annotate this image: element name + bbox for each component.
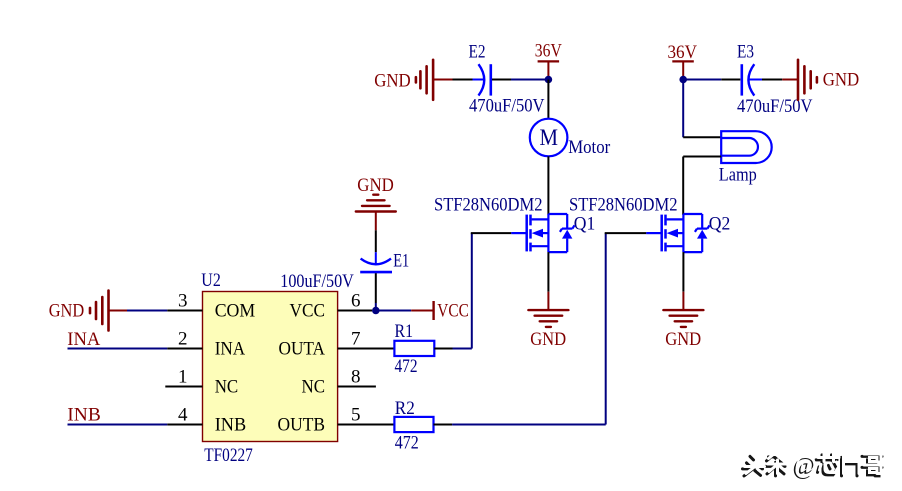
svg-text:INB: INB bbox=[215, 415, 247, 436]
node junction 36V/E3/lamp bbox=[679, 76, 687, 84]
power 36V stem (left) bbox=[547, 61, 549, 79]
wire E1 to VCC junction (navy segment) bbox=[375, 303, 377, 311]
ground earth symbol under Q1 bbox=[528, 310, 568, 327]
svg-text:GND: GND bbox=[665, 329, 701, 350]
wire COM net (navy segment) bbox=[127, 310, 167, 312]
capacitor E2 straight plate bbox=[489, 64, 492, 95]
svg-text:4: 4 bbox=[178, 405, 188, 426]
svg-text:STF28N60DM2: STF28N60DM2 bbox=[434, 195, 543, 216]
pin 8 NC stub bbox=[338, 386, 376, 388]
power VCC bar bbox=[432, 301, 434, 320]
wire R1 to corner (navy segment) bbox=[453, 348, 472, 350]
wire corner to Q2 gate (black horizontal) bbox=[605, 232, 647, 234]
resistor R2 body bbox=[394, 417, 433, 432]
svg-text:8: 8 bbox=[351, 367, 361, 388]
capacitor E2 curved plate bbox=[479, 64, 485, 95]
svg-text:NC: NC bbox=[302, 377, 326, 398]
power 36V bar (right) bbox=[672, 60, 694, 62]
svg-text:470uF/50V: 470uF/50V bbox=[469, 96, 545, 117]
node junction VCC/E1 bbox=[372, 307, 380, 315]
power 36V stem (right) bbox=[682, 61, 684, 79]
capacitor E3 lead right (blue) bbox=[749, 79, 762, 81]
power 36V bar (left) bbox=[538, 60, 560, 62]
wire COM net (maroon segment) bbox=[109, 310, 128, 312]
capacitor E1 curved plate bbox=[361, 259, 391, 265]
wire corner up to Q1 gate (navy vertical) bbox=[471, 233, 473, 348]
wire INA net (navy segment) bbox=[68, 348, 168, 350]
transistor Q2 symbol bbox=[646, 214, 709, 252]
wire E2 to 36V junction (black segment) bbox=[492, 79, 511, 81]
wire junction to VCC (maroon segment) bbox=[411, 310, 432, 312]
watermark 头条 @芯片哥 bbox=[743, 452, 885, 480]
svg-text:E2: E2 bbox=[469, 42, 486, 63]
svg-text:Motor: Motor bbox=[568, 137, 611, 158]
wire R2 to corner (navy segment) bbox=[452, 424, 606, 426]
svg-text:E1: E1 bbox=[393, 251, 409, 272]
ground symbol (rotated bars, E2 branch) bbox=[416, 60, 433, 100]
svg-text:STF28N60DM2: STF28N60DM2 bbox=[569, 195, 678, 216]
ground symbol (rotated bars, E3 branch) bbox=[798, 60, 817, 100]
svg-text:6: 6 bbox=[351, 291, 361, 312]
svg-text:OUTA: OUTA bbox=[279, 339, 326, 360]
svg-text:7: 7 bbox=[351, 329, 361, 350]
wire pin6 (black pin segment) bbox=[338, 310, 372, 312]
svg-text:VCC: VCC bbox=[437, 301, 469, 322]
svg-text:VCC: VCC bbox=[290, 301, 326, 322]
motor M1 circle bbox=[530, 119, 568, 157]
svg-text:GND: GND bbox=[357, 175, 394, 196]
svg-text:5: 5 bbox=[351, 405, 361, 426]
wire Q2 source to ground (maroon segment) bbox=[682, 292, 684, 310]
svg-text:472: 472 bbox=[395, 433, 419, 454]
svg-text:NC: NC bbox=[215, 377, 239, 398]
svg-text:M: M bbox=[539, 125, 558, 150]
svg-text:INA: INA bbox=[67, 329, 100, 350]
svg-text:472: 472 bbox=[395, 356, 418, 377]
svg-text:INB: INB bbox=[67, 405, 101, 426]
svg-text:R1: R1 bbox=[395, 321, 414, 342]
svg-text:GND: GND bbox=[49, 300, 84, 321]
wire ground to E1 (black segment) bbox=[375, 230, 377, 252]
wire pin5 to R2 (black) bbox=[338, 424, 395, 426]
wire Q1 source to ground (maroon segment) bbox=[547, 292, 549, 310]
svg-text:Q1: Q1 bbox=[574, 214, 596, 235]
wire corner to Q1 gate (black horizontal) bbox=[471, 232, 511, 234]
ground earth symbol inverted (E1 branch) bbox=[356, 195, 396, 212]
svg-text:2: 2 bbox=[178, 329, 188, 350]
wire junction down to lamp (navy) bbox=[682, 80, 684, 138]
capacitor E3 curved plate bbox=[748, 64, 754, 95]
wire E3 to ground (black segment) bbox=[762, 79, 782, 81]
resistor R1 body bbox=[394, 341, 434, 356]
svg-text:U2: U2 bbox=[201, 270, 221, 291]
wire junction to E3 (black segment) bbox=[721, 79, 740, 81]
IC U2 body bbox=[203, 292, 338, 442]
svg-text:36V: 36V bbox=[668, 42, 698, 63]
wire ground to E2 (black segment) bbox=[453, 79, 473, 81]
lamp DS1 outer shell bbox=[721, 131, 772, 163]
wire INB net (black pin segment) bbox=[167, 424, 202, 426]
svg-text:36V: 36V bbox=[535, 40, 562, 61]
svg-text:E3: E3 bbox=[737, 42, 754, 63]
wire ground to E1 (maroon segment) bbox=[375, 212, 377, 231]
capacitor E2 lead left (blue) bbox=[473, 79, 484, 81]
svg-text:1: 1 bbox=[178, 367, 188, 388]
svg-text:GND: GND bbox=[374, 70, 411, 91]
svg-text:OUTB: OUTB bbox=[278, 415, 326, 436]
lamp DS1 inner filament bbox=[721, 138, 758, 156]
capacitor E3 straight plate bbox=[740, 64, 743, 95]
wire junction to motor bbox=[547, 80, 549, 120]
svg-text:470uF/50V: 470uF/50V bbox=[737, 96, 813, 117]
wire lamp bottom (black) bbox=[683, 156, 721, 158]
svg-text:100uF/50V: 100uF/50V bbox=[280, 271, 354, 292]
transistor Q1 symbol bbox=[511, 214, 574, 252]
wire INA net (black pin segment) bbox=[167, 348, 202, 350]
wire motor to Q1 drain bbox=[547, 156, 549, 215]
svg-text:COM: COM bbox=[215, 301, 256, 322]
svg-text:TF0227: TF0227 bbox=[204, 445, 253, 466]
svg-text:GND: GND bbox=[823, 70, 860, 91]
wire E1 to VCC junction (black segment) bbox=[375, 273, 377, 303]
wire R2 to corner (black segment) bbox=[434, 424, 453, 426]
capacitor E1 lead top (blue) bbox=[375, 252, 377, 263]
svg-text:GND: GND bbox=[530, 329, 566, 350]
wire R1 to corner (black segment) bbox=[434, 348, 452, 350]
wire lamp to Q2 drain (black) bbox=[682, 157, 684, 216]
capacitor E1 straight plate bbox=[360, 271, 392, 274]
wire pin7 to R1 (black) bbox=[338, 348, 395, 350]
svg-text:INA: INA bbox=[215, 339, 246, 360]
wire Q2 source to ground (black segment) bbox=[682, 252, 684, 292]
pin 1 NC stub bbox=[165, 386, 202, 388]
svg-text:@: @ bbox=[795, 452, 817, 478]
wire INB net (navy segment) bbox=[68, 424, 168, 426]
wire corner up to Q2 gate (navy vertical) bbox=[605, 233, 607, 424]
wire E3 to ground (maroon segment) bbox=[782, 79, 798, 81]
svg-text:Q2: Q2 bbox=[709, 214, 731, 235]
svg-text:3: 3 bbox=[178, 291, 188, 312]
svg-text:R2: R2 bbox=[395, 398, 415, 419]
node junction 36V/E2/motor bbox=[545, 76, 553, 84]
wire to lamp top (black) bbox=[683, 136, 721, 138]
wire junction to VCC (navy segment) bbox=[376, 310, 411, 312]
ground symbol (rotated bars, COM net) bbox=[90, 291, 109, 331]
wire Q1 source to ground (black segment) bbox=[547, 252, 549, 292]
wire ground to E2 (maroon segment) bbox=[433, 79, 453, 81]
wire junction to E3 (navy segment) bbox=[683, 79, 721, 81]
wire COM net (black pin segment) bbox=[167, 310, 202, 312]
wire E2 to 36V junction (navy segment) bbox=[511, 79, 548, 81]
svg-text:Lamp: Lamp bbox=[719, 165, 757, 186]
ground earth symbol under Q2 bbox=[663, 310, 703, 327]
